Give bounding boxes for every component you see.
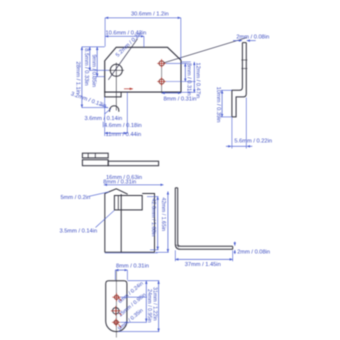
hole S1 (upper small hole)	[159, 61, 164, 66]
dim 2mm leg: arrows	[234, 242, 236, 246]
dim 42mm outer: dimension line	[167, 192, 169, 253]
svg-text:8mm / 0.31in: 8mm / 0.31in	[164, 97, 197, 103]
J profile inner contour	[232, 43, 246, 117]
svg-text:28mm / 1.1in: 28mm / 1.1in	[74, 62, 80, 95]
svg-text:10mm / 0.39in: 10mm / 0.39in	[215, 87, 221, 123]
hole P3 red crosshair	[112, 321, 120, 323]
svg-text:10.6mm / 0.42in: 10.6mm / 0.42in	[106, 30, 147, 36]
dim 10mm left of J: extension lines	[221, 89, 232, 91]
hole P3 (bottom small)	[114, 320, 118, 324]
left dim 28mm: dimension line	[81, 47, 83, 108]
svg-text:8mm / 0.31in: 8mm / 0.31in	[116, 263, 149, 269]
J profile top cap	[242, 42, 246, 44]
hole P2 red crosshair	[111, 310, 121, 312]
hole P2 (middle larger)	[113, 308, 119, 314]
strip box 2	[82, 160, 108, 166]
L outer contour	[175, 188, 232, 250]
red arrow at bottom edge	[124, 88, 133, 90]
strip box 1	[82, 153, 108, 158]
dim 5.6mm: dimension line with outside arrows	[226, 145, 231, 147]
dim 11mm: extension lines	[104, 97, 106, 136]
dim 10.6mm: dimension line	[105, 35, 144, 37]
right dim 12mm: dimension line	[193, 62, 195, 93]
dim 8mm horizontal: dimension line	[162, 92, 181, 94]
svg-text:42.6mm / 1.68in: 42.6mm / 1.68in	[150, 199, 156, 237]
leader for 3.2mm	[99, 105, 108, 108]
svg-text:3.5mm / 0.14in: 3.5mm / 0.14in	[60, 228, 98, 234]
leader P2	[119, 313, 122, 315]
hole S2 (lower small hole)	[159, 79, 164, 84]
dim 10.6mm: extension line	[143, 36, 145, 47]
hole S1 centerline down	[161, 68, 163, 94]
svg-text:11mm / 0.44in: 11mm / 0.44in	[106, 132, 142, 138]
middle view bottom dim line	[105, 252, 158, 254]
bottom plate outline	[106, 281, 127, 332]
left dim 8.5mm: dimension line	[89, 47, 91, 71]
dim 42.6mm ext ticks	[147, 196, 159, 198]
dim 11mm: dimension line	[105, 132, 128, 134]
leader for 5mm	[89, 192, 109, 197]
head rect inner line	[117, 196, 119, 210]
hole B1 (big hole, main view)	[110, 64, 122, 76]
bottom view width dim line	[115, 269, 127, 271]
dim 10mm: dimension line	[221, 90, 223, 117]
L bend tick	[176, 245, 179, 248]
dim 42.6mm inner: dimension line	[157, 197, 159, 250]
bottom edge extension right	[181, 91, 196, 93]
dim 37mm: dimension line	[175, 258, 232, 260]
main top view: plate outline	[105, 47, 181, 92]
main view: lower step tab edge	[105, 92, 121, 97]
svg-text:42mm / 1.65in: 42mm / 1.65in	[160, 198, 166, 232]
svg-text:2mm / 0.08in: 2mm / 0.08in	[236, 34, 269, 40]
svg-text:8.5mm / 0.33in: 8.5mm / 0.33in	[83, 48, 89, 85]
top dim line of middle view	[104, 184, 163, 186]
middle view body inner edge	[120, 194, 122, 252]
leader from hole S1 to thickness note	[164, 38, 247, 63]
svg-text:3.2mm / 0.13in: 3.2mm / 0.13in	[70, 91, 107, 109]
hole S1 red crosshair	[157, 62, 166, 64]
svg-text:37mm / 1.45in: 37mm / 1.45in	[185, 262, 221, 268]
bottom view ext lines above plate	[114, 270, 116, 280]
svg-text:24mm / 0.95in: 24mm / 0.95in	[146, 289, 152, 323]
hole S2 extension right	[166, 81, 196, 83]
middle view bottom edge	[105, 251, 155, 253]
4.6mm bracket tick	[102, 122, 104, 128]
hole diameter leader 5.2mm	[108, 39, 137, 80]
leader for 3.6mm	[105, 109, 112, 114]
hole B1 center extension to left dim	[90, 69, 109, 71]
svg-text:5.6mm / 0.22in: 5.6mm / 0.22in	[234, 139, 272, 145]
bottom plate centerline	[115, 271, 117, 338]
svg-text:12mm / 0.47in: 12mm / 0.47in	[195, 63, 201, 99]
dim inner right (24mm): dimension line	[145, 281, 147, 322]
strip box 1 inner dividers	[87, 153, 89, 158]
svg-text:30.6mm / 1.2in: 30.6mm / 1.2in	[131, 11, 169, 17]
hole P1 red crosshair	[112, 296, 120, 298]
svg-text:31mm / 1.22in: 31mm / 1.22in	[152, 287, 158, 321]
svg-text:3.6mm / 0.14in: 3.6mm / 0.14in	[85, 116, 123, 122]
dim 42mm ext ticks	[156, 251, 169, 253]
dim 30.6mm top: dimension line	[105, 17, 181, 19]
strip box 3 (long thin)	[108, 161, 158, 166]
dim 37mm: extension lines	[174, 250, 176, 261]
hole B1 vertical centerline down through tab	[115, 63, 117, 111]
L top cap	[175, 187, 177, 189]
middle view body left edge	[104, 194, 106, 253]
svg-text:8mm / 0.31in: 8mm / 0.31in	[186, 63, 192, 96]
middle view head rect	[114, 196, 142, 210]
right dim 8mm vertical: dimension line	[184, 63, 186, 81]
L inner contour	[178, 188, 233, 247]
J profile outer contour	[232, 43, 243, 117]
svg-text:4.6mm / 0.18in: 4.6mm / 0.18in	[104, 123, 142, 129]
dim 2mm (wall thickness): arrows	[233, 40, 242, 42]
hole S2 red crosshair	[157, 81, 166, 83]
dim outer right (31mm): dimension line	[158, 281, 160, 332]
left dim 28mm: extension lines	[82, 46, 105, 48]
L right cap	[232, 246, 234, 249]
right dim ext top	[182, 61, 191, 63]
middle view roof	[105, 189, 128, 194]
dim 30.6mm top: extension lines	[104, 18, 106, 47]
leader for 3.5mm	[96, 210, 115, 227]
leader P3	[118, 324, 121, 327]
leader P1	[119, 298, 122, 301]
left dim 9mm: dimension line	[96, 47, 98, 77]
left dim 9mm extension	[93, 76, 105, 78]
dim 5.6mm bottom of J: extension lines	[231, 118, 233, 149]
hole P1 (top small)	[114, 295, 118, 299]
hole B1 horizontal centerline	[109, 69, 124, 71]
svg-text:5mm / 0.2in: 5mm / 0.2in	[61, 195, 91, 201]
J profile bend ticks	[241, 59, 247, 61]
svg-text:9mm / 0.35in: 9mm / 0.35in	[90, 55, 96, 88]
hole S1 extension right	[166, 62, 188, 64]
main view: rounded tab bump	[110, 106, 119, 112]
svg-text:2mm / 0.08in: 2mm / 0.08in	[237, 249, 270, 255]
right dims of bottom view: ext lines	[128, 280, 160, 282]
middle view top right edge	[142, 194, 154, 253]
